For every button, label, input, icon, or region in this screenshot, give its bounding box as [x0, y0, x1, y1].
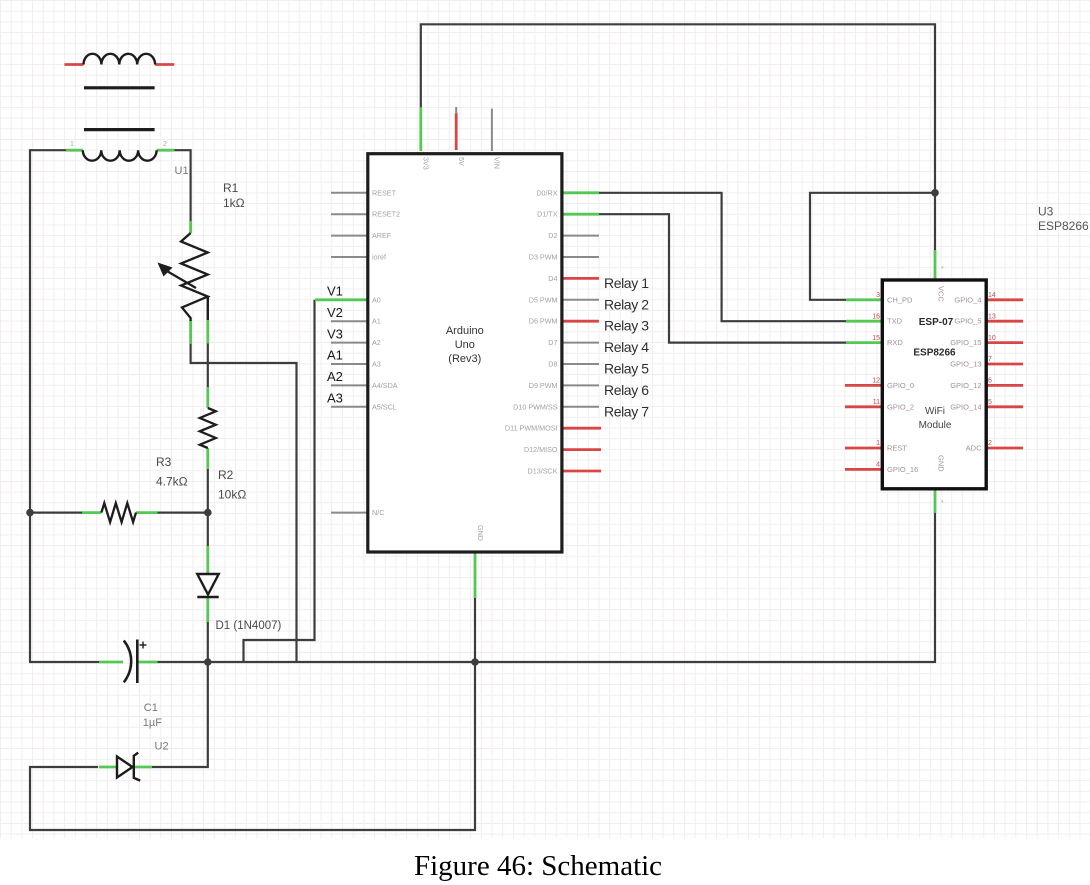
- svg-text:AREF: AREF: [372, 231, 392, 240]
- svg-text:GPIO_0: GPIO_0: [887, 381, 914, 390]
- ESP8266 center labels: [913, 317, 956, 431]
- svg-text:N/C: N/C: [372, 508, 384, 517]
- gray unconnected pin stubs: [331, 107, 599, 513]
- resistor R3 zigzag: [101, 503, 136, 522]
- tiny pin marks: [70, 141, 944, 507]
- svg-text:D5 PWM: D5 PWM: [529, 295, 558, 304]
- wire R1 bottom terminal to R2: [207, 297, 209, 388]
- svg-text:GPIO_14: GPIO_14: [950, 402, 981, 411]
- wire ESP GND vertical: [934, 513, 936, 663]
- wire R2 bottom to junction: [207, 469, 209, 514]
- svg-text:GPIO_15: GPIO_15: [950, 338, 981, 347]
- zener diode U2 cathode bar: [134, 753, 140, 781]
- svg-text:Relay 6: Relay 6: [604, 382, 649, 398]
- svg-text:15: 15: [872, 335, 880, 342]
- svg-text:V3: V3: [327, 326, 343, 341]
- wire R3 row left segment: [29, 511, 82, 513]
- svg-text:D10 PWM/SS: D10 PWM/SS: [513, 402, 558, 411]
- junction left rail / R3: [26, 509, 34, 517]
- svg-text:4: 4: [876, 462, 880, 469]
- svg-text:REST: REST: [887, 444, 907, 453]
- svg-text:GPIO_5: GPIO_5: [954, 317, 981, 326]
- svg-text:ESP-07: ESP-07: [919, 317, 954, 328]
- svg-text:A1: A1: [327, 348, 343, 363]
- net labels V1 V2 V3 A1 A2 A3: [327, 284, 343, 406]
- svg-text:U3: U3: [1038, 205, 1054, 219]
- green pin legs: [66, 107, 935, 767]
- wire D1/TX to ESP RXD: [598, 214, 846, 342]
- svg-text:10: 10: [988, 335, 996, 342]
- wire A0 (V1) drop with step to ground row: [244, 300, 315, 662]
- capacitor C1 curved plate: [124, 641, 131, 683]
- svg-text:Relay 1: Relay 1: [604, 275, 649, 291]
- svg-text:D6 PWM: D6 PWM: [529, 317, 558, 326]
- svg-text:4.7kΩ: 4.7kΩ: [156, 475, 188, 489]
- capacitor C1 plus sign: [140, 642, 147, 649]
- svg-text:7: 7: [988, 356, 992, 363]
- ESP8266 left pin labels: [887, 295, 918, 474]
- svg-text:13: 13: [988, 313, 996, 320]
- svg-text:A2: A2: [372, 338, 381, 347]
- svg-text:5: 5: [988, 399, 992, 406]
- svg-text:*: *: [941, 266, 944, 273]
- wire transformer secondary right lead down to R1: [174, 150, 190, 233]
- svg-text:ESP8266: ESP8266: [1038, 219, 1089, 233]
- svg-text:1kΩ: 1kΩ: [223, 196, 245, 210]
- svg-text:R1: R1: [223, 181, 239, 195]
- svg-text:GPIO_2: GPIO_2: [887, 402, 914, 411]
- svg-text:(Rev3): (Rev3): [448, 353, 481, 365]
- svg-text:GPIO_16: GPIO_16: [887, 465, 918, 474]
- svg-text:Relay 5: Relay 5: [604, 361, 649, 377]
- svg-text:U2: U2: [155, 741, 169, 753]
- ESP8266 VCC GND rotated labels: [937, 286, 946, 472]
- svg-text:1: 1: [70, 141, 74, 148]
- red unrouted stubs: [64, 65, 1023, 472]
- svg-text:12: 12: [872, 378, 880, 385]
- svg-text:RXD: RXD: [887, 338, 903, 347]
- wire junction to D1 anode: [207, 513, 209, 546]
- svg-text:RESET: RESET: [372, 188, 397, 197]
- potentiometer R1 zigzag: [181, 233, 208, 321]
- svg-text:GND: GND: [937, 455, 946, 472]
- junction R2 / R3 / D1: [204, 509, 212, 517]
- svg-text:GPIO_12: GPIO_12: [950, 381, 981, 390]
- svg-text:D12/MISO: D12/MISO: [524, 445, 558, 454]
- transformer U1 primary coil: [84, 54, 156, 65]
- svg-text:D11 PWM/MOSI: D11 PWM/MOSI: [505, 424, 558, 433]
- wire R3 row right segment: [158, 511, 209, 513]
- ESP8266 pin numbers red: [872, 292, 996, 469]
- svg-text:Relay 7: Relay 7: [604, 403, 649, 419]
- svg-text:D8: D8: [548, 360, 557, 369]
- svg-text:D7: D7: [548, 338, 557, 347]
- wire ground row to ESP GND drop: [474, 661, 935, 663]
- svg-text:14: 14: [988, 292, 996, 299]
- svg-text:D3 PWM: D3 PWM: [529, 253, 558, 262]
- diode D1 cathode bar: [197, 596, 218, 599]
- wire ESP CH_PD to VCC node: [810, 193, 935, 300]
- wire D1 cathode to C1 junction: [207, 622, 209, 663]
- wire left rail: [30, 150, 66, 662]
- svg-text:3: 3: [876, 292, 880, 299]
- svg-text:11: 11: [873, 399, 880, 406]
- wire ground row junction to Arduino GND drop: [207, 661, 476, 663]
- wire ground row y=662: [29, 661, 99, 663]
- wire Arduino GND drop: [474, 598, 476, 662]
- svg-text:WiFi: WiFi: [925, 406, 945, 417]
- svg-text:VCC: VCC: [937, 286, 946, 302]
- junction C1 / D1 / U2 ground node: [204, 658, 212, 666]
- svg-text:D1/TX: D1/TX: [537, 210, 558, 219]
- wire U2 row left segment: [29, 766, 98, 768]
- svg-text:10kΩ: 10kΩ: [218, 488, 246, 502]
- svg-text:R2: R2: [218, 468, 234, 482]
- svg-text:A3: A3: [327, 391, 343, 406]
- svg-text:5V: 5V: [457, 157, 466, 166]
- svg-text:Arduino: Arduino: [446, 325, 484, 337]
- svg-text:Uno: Uno: [455, 339, 475, 351]
- svg-text:2: 2: [163, 141, 167, 148]
- wire ground row C1 to junction: [158, 661, 209, 663]
- ESP8266 U3 box: [882, 280, 986, 489]
- wire 3V3 net: Arduino 3V3 to top rail across to ESP VCC: [421, 24, 935, 250]
- svg-text:V2: V2: [327, 305, 343, 320]
- resistor R2 zigzag: [200, 408, 216, 448]
- svg-text:V1: V1: [327, 284, 343, 299]
- svg-text:GPIO_4: GPIO_4: [954, 295, 981, 304]
- svg-text:D1 (1N4007): D1 (1N4007): [216, 620, 282, 632]
- diode D1 triangle: [197, 574, 218, 595]
- svg-text:ioref: ioref: [372, 253, 386, 262]
- svg-text:A5/SCL: A5/SCL: [372, 402, 397, 411]
- svg-text:D13/SCK: D13/SCK: [528, 467, 558, 476]
- wire U2 row right segment to riser: [152, 661, 208, 767]
- Arduino top pin labels rotated: [422, 157, 502, 541]
- svg-text:R3: R3: [156, 455, 172, 469]
- svg-text:CH_PD: CH_PD: [887, 295, 913, 304]
- svg-text:1: 1: [876, 440, 880, 447]
- junction Arduino GND ground node: [471, 658, 479, 666]
- svg-text:Module: Module: [919, 420, 952, 431]
- relay labels: [604, 275, 649, 419]
- svg-text:Relay 4: Relay 4: [604, 339, 649, 355]
- figure caption: [414, 850, 662, 883]
- svg-text:GPIO_13: GPIO_13: [950, 360, 981, 369]
- wire D0/RX to ESP TXD: [598, 193, 846, 321]
- zener diode U2 triangle: [117, 757, 133, 778]
- svg-text:A3: A3: [372, 360, 381, 369]
- Arduino center label: [446, 325, 484, 365]
- svg-text:D9 PWM: D9 PWM: [529, 381, 558, 390]
- ESP8266 right pin labels: [950, 295, 982, 452]
- svg-text:A1: A1: [372, 317, 381, 326]
- svg-text:2: 2: [988, 440, 992, 447]
- svg-text:RESET2: RESET2: [372, 210, 400, 219]
- svg-text:TXD: TXD: [887, 317, 903, 326]
- transformer U1 core bars: [84, 88, 155, 130]
- svg-text:6: 6: [988, 378, 992, 385]
- label U3 ESP8266: [1038, 205, 1089, 234]
- svg-text:ADC: ADC: [966, 444, 982, 453]
- svg-text:16: 16: [872, 313, 880, 320]
- Arduino right pin labels: [505, 188, 558, 475]
- label R1 value: [156, 181, 246, 502]
- svg-text:Relay 3: Relay 3: [604, 318, 649, 334]
- transformer U1 secondary coil: [83, 150, 157, 161]
- svg-text:D2: D2: [548, 231, 557, 240]
- potentiometer R1 wiper arrow: [166, 271, 196, 289]
- label C1 value: [143, 702, 169, 753]
- svg-text:*: *: [941, 500, 944, 507]
- Arduino Uno U-board box: [368, 154, 562, 552]
- Arduino left pin labels: [372, 188, 400, 517]
- potentiometer R1 terminal branch: [207, 297, 209, 321]
- svg-text:ESP8266: ESP8266: [913, 348, 956, 359]
- svg-text:3V3: 3V3: [422, 157, 431, 170]
- capacitor C1 straight plate: [136, 640, 139, 684]
- svg-text:GND: GND: [476, 525, 485, 541]
- svg-text:A2: A2: [327, 369, 343, 384]
- svg-text:D0/RX: D0/RX: [536, 188, 557, 197]
- svg-text:U1: U1: [175, 165, 189, 177]
- wire R1 wiper down and across to A3 row: [191, 344, 297, 662]
- svg-text:A0: A0: [372, 295, 381, 304]
- svg-text:A4/SDA: A4/SDA: [372, 381, 398, 390]
- wire bottom return loop: [30, 661, 475, 830]
- svg-text:VIN: VIN: [493, 157, 502, 169]
- junction VCC node at ESP: [931, 189, 939, 197]
- svg-text:1µF: 1µF: [143, 717, 162, 729]
- svg-text:C1: C1: [144, 702, 158, 714]
- svg-text:Relay 2: Relay 2: [604, 296, 649, 312]
- svg-text:D4: D4: [548, 274, 557, 283]
